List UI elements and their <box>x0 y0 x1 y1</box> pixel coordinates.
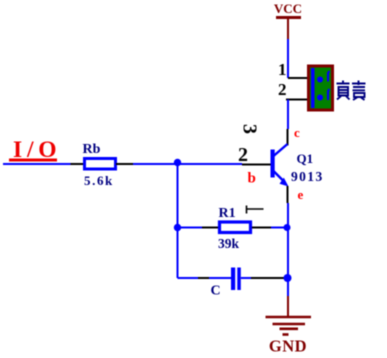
svg-text:9013: 9013 <box>291 169 324 184</box>
wire left vertical (base node down) <box>177 164 179 278</box>
wire emitter vertical <box>287 186 289 203</box>
capacitor C right lead <box>241 277 251 279</box>
resistor R1 left lead <box>202 227 220 229</box>
connector label (CJK) char 2 <box>352 81 366 101</box>
resistor R1 right lead <box>252 227 271 229</box>
ground stem <box>287 296 289 317</box>
resistor Rb right lead <box>116 163 134 165</box>
wire VCC to connector pin 1 <box>287 39 289 78</box>
svg-text:C: C <box>211 284 221 299</box>
transistor Q1 base bar <box>271 150 275 178</box>
power VCC bar <box>276 16 301 19</box>
transistor Q1 collector stroke <box>274 144 288 156</box>
connector J1 pin 1 lead <box>288 77 308 79</box>
wire bottom horizontal (to capacitor) <box>178 277 199 279</box>
ground bar 2 <box>273 323 306 326</box>
junction ground node <box>284 274 292 282</box>
svg-text:VCC: VCC <box>274 1 302 16</box>
wire emitter vertical <box>287 203 289 296</box>
capacitor C plate 2 <box>237 268 241 291</box>
svg-text:e: e <box>298 187 304 202</box>
connector J1 pin 2 lead <box>286 99 307 101</box>
transistor Q1 emitter arrow <box>280 178 289 187</box>
capacitor C right pin <box>251 277 285 279</box>
resistor R1 adjust tick <box>247 206 264 214</box>
svg-text:1: 1 <box>278 60 287 79</box>
junction base node <box>174 159 181 166</box>
wire R1 to emitter line <box>271 227 288 229</box>
wire I/O to resistor Rb <box>3 163 71 165</box>
wire to capacitor plate <box>209 277 231 279</box>
resistor Rb left lead <box>71 163 85 165</box>
wire connector pin2 to collector <box>287 100 289 130</box>
svg-text:c: c <box>294 125 300 140</box>
junction R1 right <box>284 224 291 231</box>
wire Rb to base node <box>133 163 242 165</box>
power VCC stem <box>287 18 289 39</box>
capacitor C plate 1 <box>231 268 235 291</box>
svg-text:2: 2 <box>278 80 287 99</box>
connector label (CJK) char 1 <box>337 81 350 100</box>
resistor R1 body <box>220 222 251 233</box>
connector J1 body <box>309 66 333 110</box>
transistor Q1 emitter stroke <box>274 171 284 181</box>
svg-text:b: b <box>248 171 256 187</box>
transistor Q1 base pin <box>242 164 271 166</box>
port I/O underline <box>9 159 57 162</box>
svg-text:Rb: Rb <box>83 142 101 157</box>
svg-text:Q1: Q1 <box>297 151 314 166</box>
ground bar 3 <box>280 327 299 330</box>
wire to R1 <box>178 227 203 229</box>
junction R1 left <box>174 224 181 231</box>
ground bar 1 <box>266 316 312 319</box>
svg-text:2: 2 <box>238 144 248 166</box>
svg-text:R1: R1 <box>219 206 236 221</box>
svg-text:39k: 39k <box>218 236 240 251</box>
svg-text:3: 3 <box>239 124 261 134</box>
transistor Q1 collector pin <box>287 129 289 146</box>
capacitor C left pin <box>198 277 209 279</box>
ground bar 4 <box>283 333 289 336</box>
svg-text:GND: GND <box>269 337 307 356</box>
svg-text:5.6k: 5.6k <box>84 173 114 188</box>
resistor Rb body <box>85 159 116 170</box>
